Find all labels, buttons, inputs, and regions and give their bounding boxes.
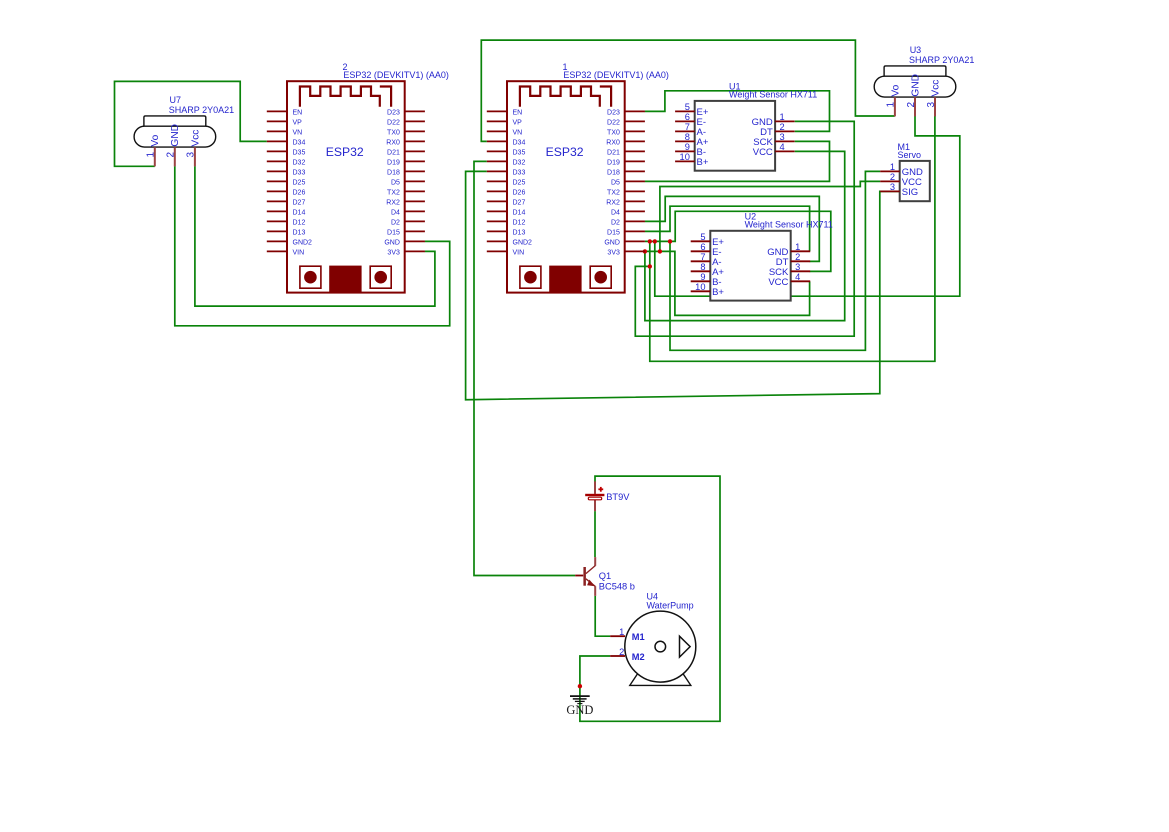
svg-text:Vo: Vo bbox=[890, 84, 901, 96]
svg-text:D27: D27 bbox=[513, 200, 526, 207]
svg-text:D18: D18 bbox=[607, 170, 620, 177]
svg-text:D32: D32 bbox=[293, 160, 306, 167]
svg-text:VIN: VIN bbox=[513, 250, 525, 257]
svg-text:7: 7 bbox=[700, 252, 705, 262]
svg-text:1: 1 bbox=[890, 162, 895, 172]
svg-text:D12: D12 bbox=[513, 220, 526, 227]
svg-text:1: 1 bbox=[795, 242, 800, 252]
svg-text:D33: D33 bbox=[513, 170, 526, 177]
svg-text:D21: D21 bbox=[387, 150, 400, 157]
svg-text:2: 2 bbox=[795, 252, 800, 262]
svg-text:VP: VP bbox=[293, 120, 303, 127]
svg-text:TX2: TX2 bbox=[387, 190, 400, 197]
svg-text:RX0: RX0 bbox=[606, 140, 620, 147]
svg-text:1: 1 bbox=[146, 152, 157, 158]
svg-text:D15: D15 bbox=[387, 230, 400, 237]
svg-text:1: 1 bbox=[886, 102, 897, 108]
svg-text:1: 1 bbox=[780, 112, 785, 122]
svg-text:2: 2 bbox=[166, 152, 177, 158]
svg-text:WaterPump: WaterPump bbox=[647, 601, 694, 611]
svg-text:3V3: 3V3 bbox=[607, 250, 620, 257]
svg-text:D13: D13 bbox=[293, 230, 306, 237]
svg-text:Servo: Servo bbox=[898, 150, 922, 160]
svg-text:D5: D5 bbox=[391, 180, 400, 187]
svg-text:4: 4 bbox=[780, 142, 785, 152]
svg-text:GND2: GND2 bbox=[293, 240, 313, 247]
svg-text:D26: D26 bbox=[513, 190, 526, 197]
svg-text:D2: D2 bbox=[611, 220, 620, 227]
svg-text:2: 2 bbox=[619, 647, 624, 657]
svg-text:U3: U3 bbox=[910, 45, 922, 55]
svg-text:D19: D19 bbox=[607, 160, 620, 167]
svg-text:TX0: TX0 bbox=[387, 130, 400, 137]
svg-text:2: 2 bbox=[890, 172, 895, 182]
svg-text:1: 1 bbox=[619, 627, 624, 637]
svg-text:D26: D26 bbox=[293, 190, 306, 197]
svg-text:D25: D25 bbox=[513, 180, 526, 187]
svg-text:TX0: TX0 bbox=[607, 130, 620, 137]
svg-text:3: 3 bbox=[780, 132, 785, 142]
svg-text:GND: GND bbox=[384, 240, 400, 247]
svg-text:GND: GND bbox=[910, 74, 921, 97]
svg-text:GND: GND bbox=[604, 240, 620, 247]
svg-text:RX2: RX2 bbox=[386, 200, 400, 207]
svg-text:VN: VN bbox=[293, 130, 303, 137]
svg-text:8: 8 bbox=[685, 132, 690, 142]
svg-text:B+: B+ bbox=[697, 157, 709, 168]
svg-text:D22: D22 bbox=[387, 120, 400, 127]
svg-text:D25: D25 bbox=[293, 180, 306, 187]
svg-text:D23: D23 bbox=[607, 110, 620, 117]
svg-text:ESP32: ESP32 bbox=[546, 145, 584, 159]
svg-text:6: 6 bbox=[685, 112, 690, 122]
svg-text:9: 9 bbox=[700, 272, 705, 282]
svg-text:D13: D13 bbox=[513, 230, 526, 237]
svg-text:D4: D4 bbox=[611, 210, 620, 217]
svg-text:4: 4 bbox=[795, 272, 800, 282]
svg-text:SHARP 2Y0A21: SHARP 2Y0A21 bbox=[169, 105, 234, 115]
svg-text:D14: D14 bbox=[293, 210, 306, 217]
svg-text:2: 2 bbox=[780, 122, 785, 132]
svg-text:U7: U7 bbox=[170, 95, 182, 105]
svg-text:3: 3 bbox=[795, 262, 800, 272]
svg-text:ESP32: ESP32 bbox=[326, 145, 364, 159]
svg-text:D23: D23 bbox=[387, 110, 400, 117]
svg-text:GND: GND bbox=[566, 703, 593, 717]
svg-text:Weight Sensor HX711: Weight Sensor HX711 bbox=[745, 219, 833, 229]
svg-text:8: 8 bbox=[700, 262, 705, 272]
svg-text:EN: EN bbox=[293, 110, 303, 117]
svg-text:D33: D33 bbox=[293, 170, 306, 177]
svg-text:D22: D22 bbox=[607, 120, 620, 127]
svg-text:3: 3 bbox=[186, 152, 197, 158]
svg-text:RX2: RX2 bbox=[606, 200, 620, 207]
svg-text:D12: D12 bbox=[293, 220, 306, 227]
svg-text:VP: VP bbox=[513, 120, 523, 127]
svg-text:D5: D5 bbox=[611, 180, 620, 187]
svg-text:D34: D34 bbox=[293, 140, 306, 147]
svg-text:TX2: TX2 bbox=[607, 190, 620, 197]
svg-text:EN: EN bbox=[513, 110, 523, 117]
svg-text:M2: M2 bbox=[632, 652, 645, 662]
svg-text:D27: D27 bbox=[293, 200, 306, 207]
svg-text:D34: D34 bbox=[513, 140, 526, 147]
svg-text:ESP32 (DEVKITV1) (AA0): ESP32 (DEVKITV1) (AA0) bbox=[343, 70, 449, 80]
svg-text:5: 5 bbox=[685, 102, 690, 112]
svg-text:D4: D4 bbox=[391, 210, 400, 217]
svg-text:ESP32 (DEVKITV1) (AA0): ESP32 (DEVKITV1) (AA0) bbox=[563, 70, 669, 80]
svg-text:Weight Sensor HX711: Weight Sensor HX711 bbox=[729, 90, 817, 100]
svg-text:BC548 b: BC548 b bbox=[599, 581, 635, 591]
svg-text:3: 3 bbox=[890, 182, 895, 192]
svg-text:5: 5 bbox=[700, 232, 705, 242]
svg-text:7: 7 bbox=[685, 122, 690, 132]
svg-text:VCC: VCC bbox=[753, 147, 773, 158]
svg-text:GND: GND bbox=[170, 124, 181, 147]
svg-text:D15: D15 bbox=[607, 230, 620, 237]
svg-text:Vo: Vo bbox=[150, 134, 161, 146]
svg-text:BT9V: BT9V bbox=[606, 492, 630, 502]
svg-text:D19: D19 bbox=[387, 160, 400, 167]
svg-text:B+: B+ bbox=[712, 287, 724, 298]
svg-text:D35: D35 bbox=[293, 150, 306, 157]
svg-text:Vcc: Vcc bbox=[190, 130, 201, 147]
svg-text:M1: M1 bbox=[632, 632, 645, 642]
svg-text:D2: D2 bbox=[391, 220, 400, 227]
svg-text:SIG: SIG bbox=[902, 187, 918, 198]
svg-text:RX0: RX0 bbox=[386, 140, 400, 147]
svg-text:D21: D21 bbox=[607, 150, 620, 157]
svg-text:SHARP 2Y0A21: SHARP 2Y0A21 bbox=[909, 55, 974, 65]
svg-text:VN: VN bbox=[513, 130, 523, 137]
svg-text:D35: D35 bbox=[513, 150, 526, 157]
svg-text:Vcc: Vcc bbox=[930, 80, 941, 97]
svg-text:GND2: GND2 bbox=[513, 240, 533, 247]
svg-text:3: 3 bbox=[926, 102, 937, 108]
svg-text:3V3: 3V3 bbox=[387, 250, 400, 257]
svg-text:D14: D14 bbox=[513, 210, 526, 217]
svg-text:10: 10 bbox=[680, 152, 690, 162]
svg-text:VIN: VIN bbox=[293, 250, 305, 257]
svg-text:VCC: VCC bbox=[768, 277, 788, 288]
svg-text:Q1: Q1 bbox=[599, 571, 611, 581]
svg-text:9: 9 bbox=[685, 142, 690, 152]
svg-text:10: 10 bbox=[695, 282, 705, 292]
svg-text:2: 2 bbox=[906, 102, 917, 108]
svg-text:D32: D32 bbox=[513, 160, 526, 167]
svg-text:D18: D18 bbox=[387, 170, 400, 177]
svg-text:6: 6 bbox=[700, 242, 705, 252]
